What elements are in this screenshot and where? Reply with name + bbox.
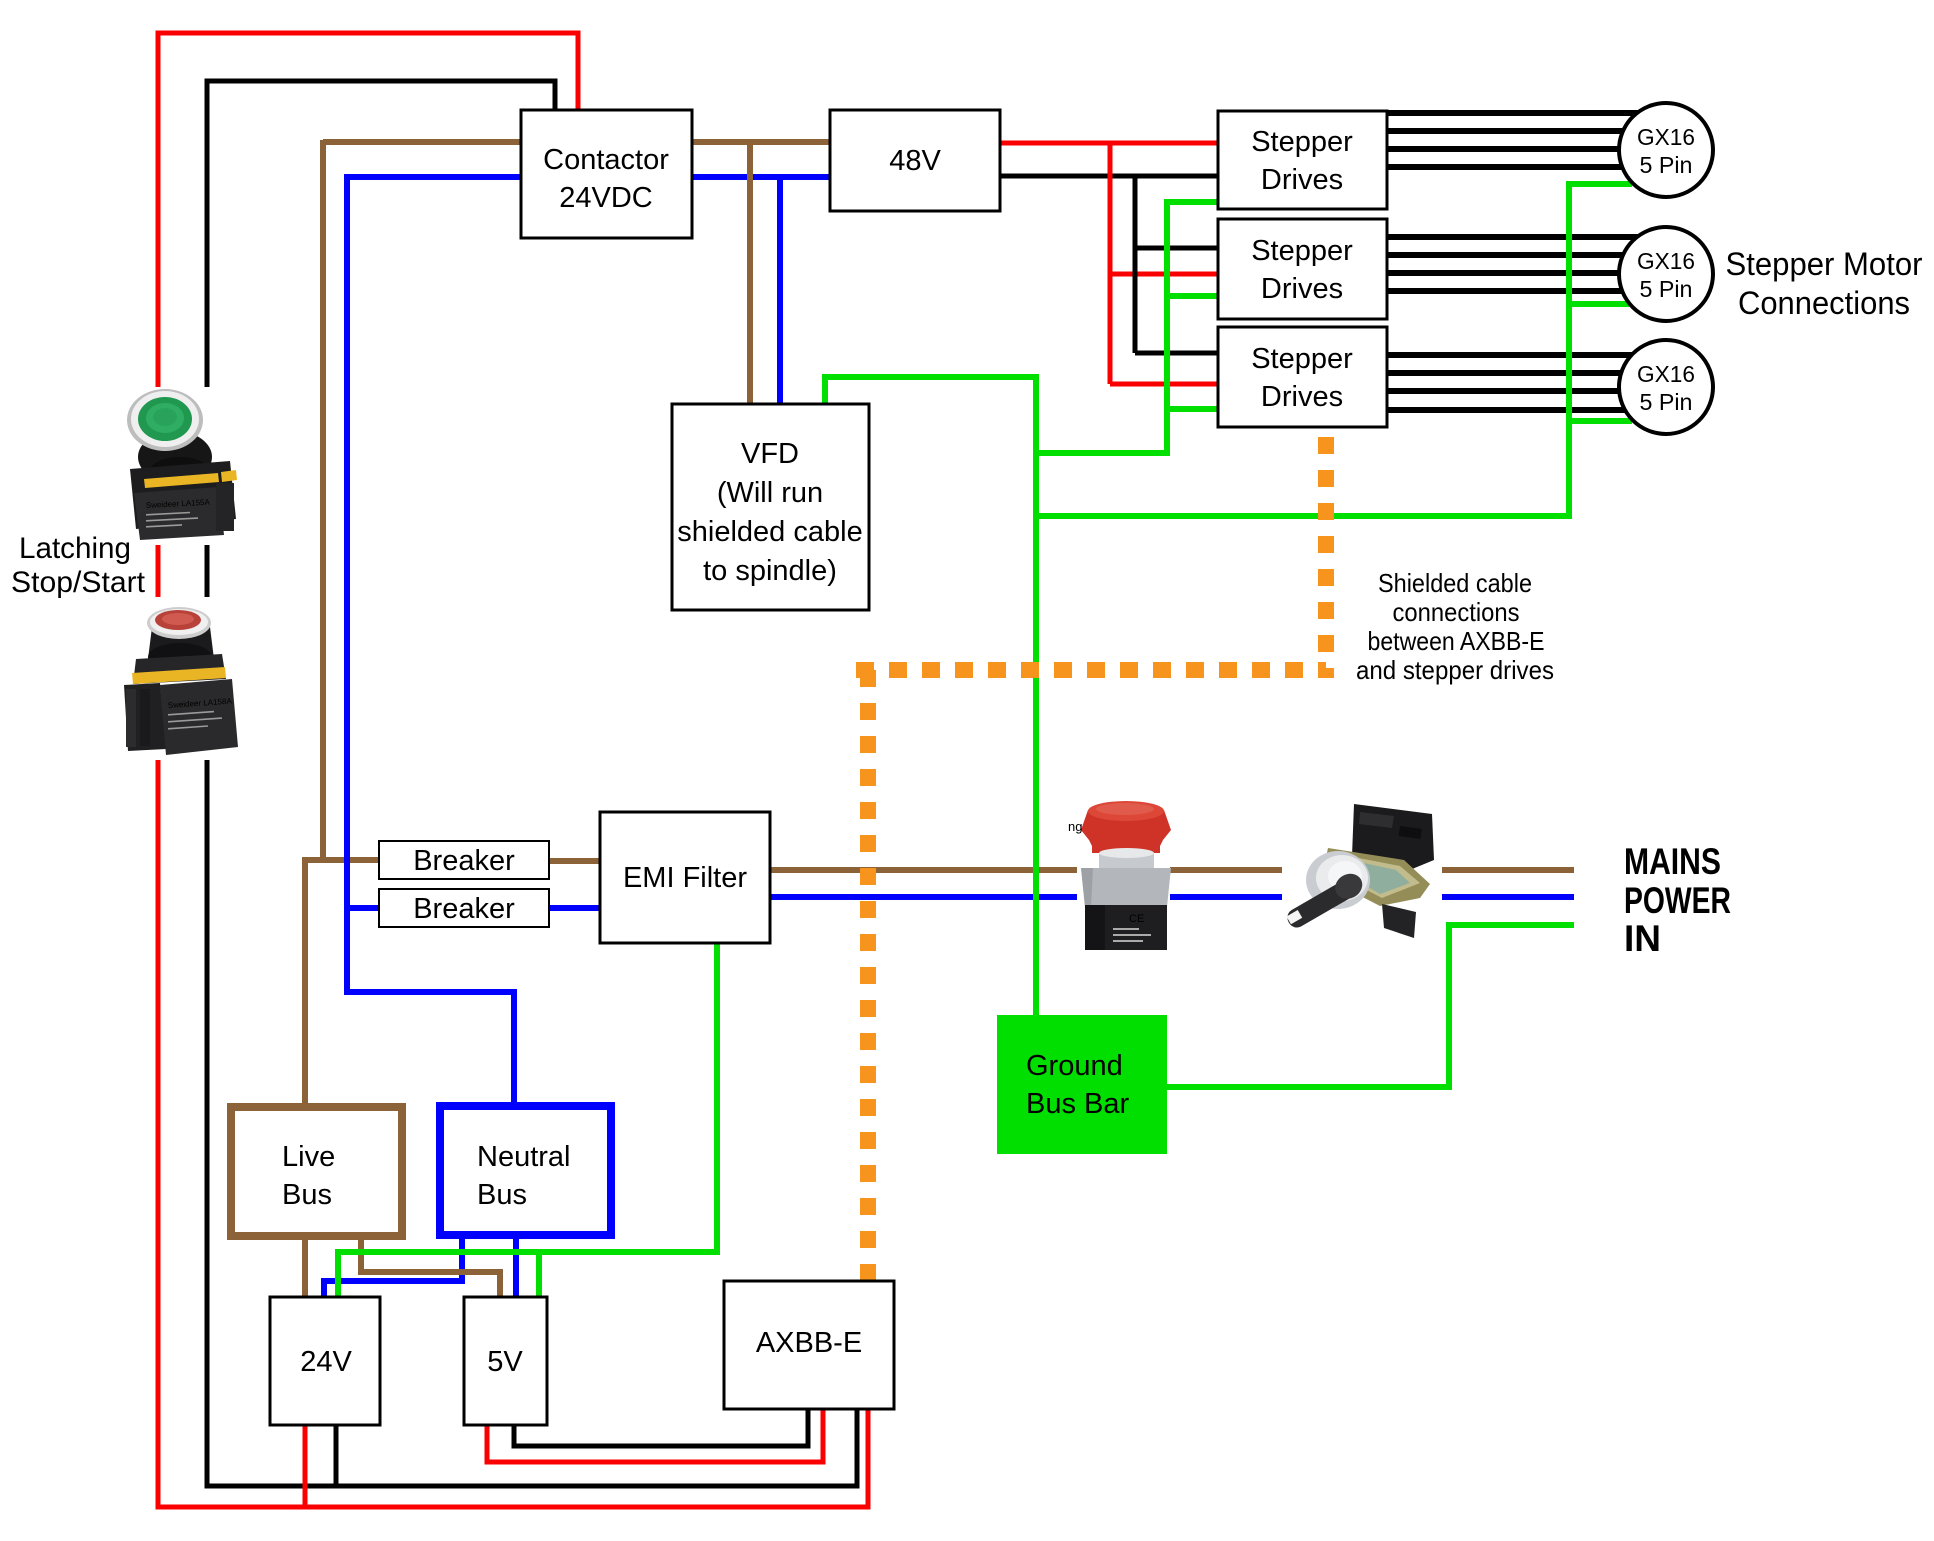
orange dashed AXBB-E drop <box>860 670 876 1281</box>
svg-text:Bus: Bus <box>477 1179 527 1211</box>
box stepper drives 2 <box>1218 219 1387 319</box>
box contactor 24VDC <box>521 110 692 238</box>
wire green trunk to stepper-green riser <box>1036 450 1167 456</box>
wire green stepper riser <box>1167 202 1220 456</box>
wire motor1 lines <box>1386 110 1650 116</box>
orange dashed horizontal <box>856 662 1326 678</box>
wire blue left drop to neutral bus <box>347 174 514 1108</box>
photo green latching button <box>118 387 248 545</box>
wire blue EMI to mains <box>768 894 1574 900</box>
wire green trunk to GX16 riser <box>1036 513 1569 519</box>
wire green to stepper drive 3 <box>1167 406 1220 412</box>
wire blue neutral bus to 24V <box>324 1233 462 1299</box>
svg-text:to spindle): to spindle) <box>703 555 837 587</box>
wire black to stepper drive 2 <box>1135 246 1220 251</box>
svg-text:Stepper: Stepper <box>1251 343 1353 375</box>
svg-text:shielded cable: shielded cable <box>677 516 862 548</box>
wire red stepper feeder vertical <box>1108 143 1113 384</box>
svg-text:5 Pin: 5 Pin <box>1640 389 1693 415</box>
WIRES-ORANGE dashed <box>856 437 1326 1281</box>
circle GX16 2 <box>1619 227 1713 321</box>
box VFD <box>672 404 869 610</box>
wire green to GX16 2 <box>1569 301 1630 307</box>
wire blue contactor to 48V (neutral) <box>347 174 832 180</box>
wire green VFD ground trunk <box>825 377 1036 1017</box>
svg-text:POWER: POWER <box>1624 880 1731 921</box>
wire green to stepper drive 2 <box>1167 293 1220 299</box>
wire black 5V to AXBB-E <box>514 1407 808 1446</box>
svg-text:Ground: Ground <box>1026 1050 1123 1082</box>
wire green tee to 5V <box>536 1252 542 1299</box>
label stepper motor connections <box>1726 246 1923 321</box>
orange dashed stepper drop <box>1318 437 1334 678</box>
svg-text:Bus Bar: Bus Bar <box>1026 1088 1129 1120</box>
svg-text:VFD: VFD <box>741 438 799 470</box>
box 24V <box>270 1297 380 1425</box>
wire blue VFD drop <box>777 177 783 406</box>
svg-text:MAINS: MAINS <box>1624 841 1721 882</box>
wire green to GX16 3 <box>1569 418 1632 424</box>
svg-text:CE: CE <box>1129 913 1144 925</box>
stepper motor wires black <box>1386 113 1650 410</box>
wire black 24V to bottom bus <box>334 1423 339 1486</box>
svg-text:between AXBB-E: between AXBB-E <box>1368 626 1545 656</box>
svg-text:Latching: Latching <box>19 532 131 565</box>
wire black stop/start loop <box>207 81 857 1486</box>
svg-text:48V: 48V <box>889 145 941 177</box>
wire black to stepper drive 3 <box>1135 351 1220 356</box>
svg-text:5 Pin: 5 Pin <box>1640 152 1693 178</box>
svg-text:Connections: Connections <box>1738 285 1910 321</box>
wire black 48V to stepper drive 1 <box>998 174 1220 179</box>
wire red 48V to stepper drive 1 <box>998 141 1220 146</box>
svg-text:5 Pin: 5 Pin <box>1640 276 1693 302</box>
wire brown VFD drop (over blue) <box>361 142 750 1299</box>
box 48V <box>830 110 1000 211</box>
wire blue breaker2 to EMI <box>548 905 602 911</box>
box ground bus bar <box>997 1015 1167 1154</box>
WIRES-BLACK <box>207 81 1220 1486</box>
wire blue neutral bus to 5V <box>513 1233 519 1299</box>
box live bus <box>231 1107 402 1236</box>
svg-text:Bus: Bus <box>282 1179 332 1211</box>
box breaker 1 <box>379 841 549 879</box>
box EMI filter <box>600 812 770 943</box>
wire brown EMI to mains <box>768 867 1574 873</box>
svg-text:and stepper drives: and stepper drives <box>1356 655 1554 685</box>
label shielded cable note <box>1356 568 1554 685</box>
wire motor3 lines <box>1386 352 1650 358</box>
wire black stepper feeder vertical (over red) <box>1135 176 1220 353</box>
wire brown elbow to breaker 1 and live bus <box>305 860 379 1299</box>
wire red 5V to AXBB-E <box>487 1407 823 1462</box>
svg-text:GX16: GX16 <box>1637 361 1695 387</box>
svg-text:Drives: Drives <box>1261 164 1343 196</box>
svg-text:Drives: Drives <box>1261 273 1343 305</box>
wire red to stepper drive 2 <box>1110 272 1220 277</box>
svg-text:Stepper: Stepper <box>1251 235 1353 267</box>
wire brown breaker1 to EMI <box>548 858 602 864</box>
wire blue tee to breaker 2 <box>347 905 381 911</box>
label mains power in <box>1624 841 1731 959</box>
box breaker 2 <box>379 889 549 927</box>
WIRES-BROWN <box>305 140 1574 1299</box>
svg-text:Contactor: Contactor <box>543 144 669 176</box>
svg-text:Shielded cable: Shielded cable <box>1378 568 1532 598</box>
box neutral bus <box>440 1106 611 1235</box>
wire red 24V to bottom bus <box>303 1423 308 1507</box>
box 5V <box>464 1297 547 1425</box>
svg-text:Live: Live <box>282 1141 335 1173</box>
svg-text:Stepper: Stepper <box>1251 126 1353 158</box>
svg-text:5V: 5V <box>487 1346 523 1378</box>
wire brown left drop to breaker/live bus <box>320 140 326 860</box>
WIRES-GREEN <box>338 184 1632 1299</box>
svg-text:GX16: GX16 <box>1637 248 1695 274</box>
svg-text:24VDC: 24VDC <box>559 182 653 214</box>
wire brown contactor to 48V (live) <box>323 139 832 145</box>
wire red to stepper drive 3 <box>1110 382 1220 387</box>
wire red stop/start loop <box>158 33 868 1507</box>
svg-text:Breaker: Breaker <box>413 845 515 877</box>
wire motor2 lines <box>1386 234 1650 240</box>
svg-text:ng: ng <box>1068 819 1082 834</box>
wire green GX16 riser <box>1569 184 1632 519</box>
svg-text:Stepper Motor: Stepper Motor <box>1726 246 1923 282</box>
photo e-stop button <box>1077 800 1171 950</box>
photo red latching button <box>116 597 240 760</box>
svg-text:IN: IN <box>1624 918 1661 959</box>
svg-text:GX16: GX16 <box>1637 124 1695 150</box>
svg-text:connections: connections <box>1393 597 1520 627</box>
svg-text:AXBB-E: AXBB-E <box>756 1327 862 1359</box>
WIRES-RED <box>158 33 1220 1507</box>
box stepper drives 1 <box>1218 111 1387 209</box>
svg-text:Neutral: Neutral <box>477 1141 571 1173</box>
svg-text:Breaker: Breaker <box>413 893 515 925</box>
BOXES <box>270 110 1387 1425</box>
circle GX16 3 <box>1619 340 1713 434</box>
wire green EMI ground drop <box>338 941 717 1299</box>
box stepper drives 3 <box>1218 327 1387 427</box>
wire green mains to ground bus bar <box>1165 925 1574 1087</box>
box AXBB-E <box>724 1281 894 1409</box>
svg-text:Drives: Drives <box>1261 381 1343 413</box>
svg-text:EMI Filter: EMI Filter <box>623 862 747 894</box>
circle GX16 1 <box>1619 103 1713 197</box>
svg-text:24V: 24V <box>300 1346 352 1378</box>
wire brown live bus to 5V <box>361 1234 500 1299</box>
svg-text:(Will run: (Will run <box>717 477 823 509</box>
photo selector switch <box>1282 798 1442 943</box>
svg-text:Stop/Start: Stop/Start <box>11 566 146 599</box>
WIRES-BLUE <box>324 174 1574 1299</box>
